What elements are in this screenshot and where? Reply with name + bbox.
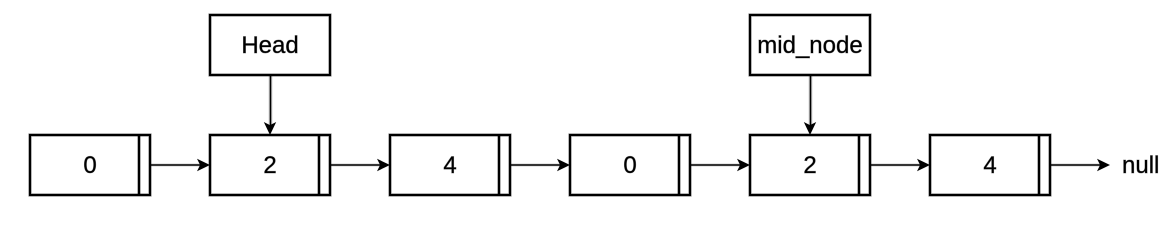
svg-text:null: null <box>1122 152 1159 179</box>
svg-text:2: 2 <box>803 152 816 179</box>
svg-text:4: 4 <box>443 152 456 179</box>
svg-text:mid_node: mid_node <box>757 32 862 59</box>
svg-text:0: 0 <box>623 152 636 179</box>
svg-text:0: 0 <box>83 152 96 179</box>
svg-text:2: 2 <box>263 152 276 179</box>
svg-text:Head: Head <box>241 32 298 59</box>
svg-text:4: 4 <box>983 152 996 179</box>
